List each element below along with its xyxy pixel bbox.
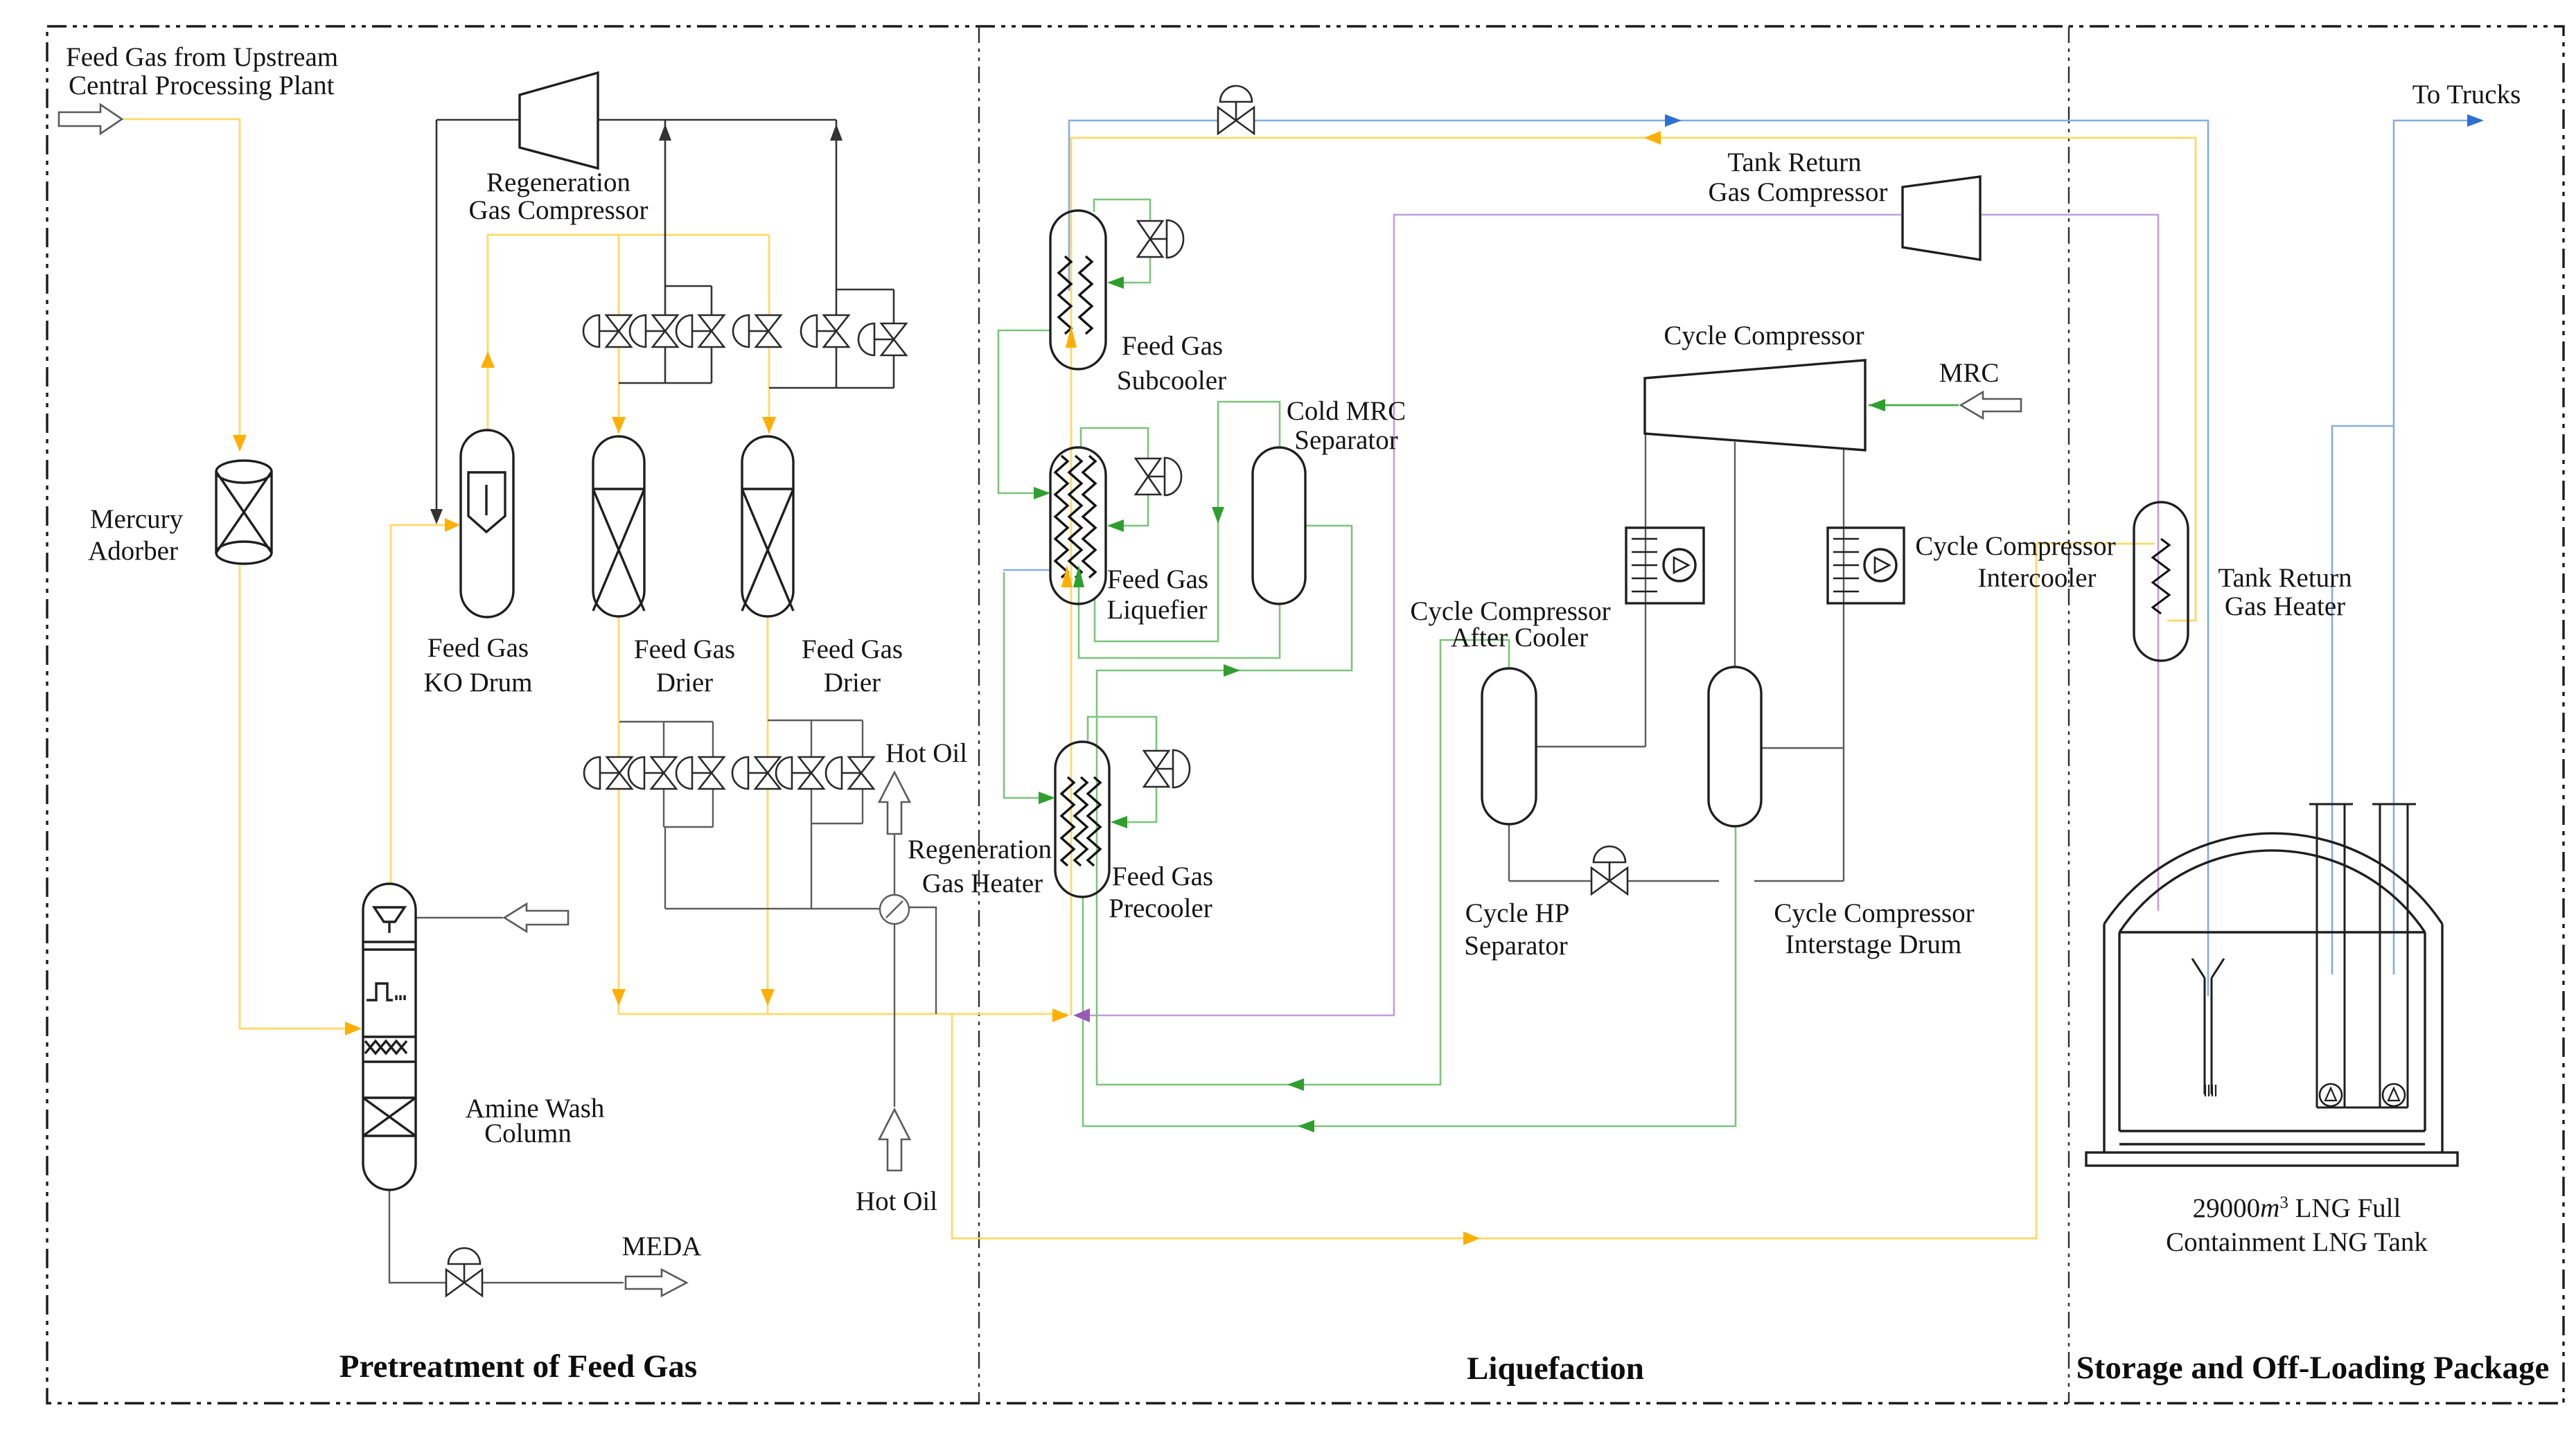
svg-text:Cycle Compressor: Cycle Compressor [1774,898,1974,928]
svg-text:Pretreatment of Feed Gas: Pretreatment of Feed Gas [339,1349,697,1385]
svg-text:Tank Return: Tank Return [2218,563,2352,593]
svg-text:Feed Gas: Feed Gas [1112,862,1213,891]
svg-text:MEDA: MEDA [622,1231,702,1261]
svg-text:Gas Compressor: Gas Compressor [1709,177,1888,207]
svg-text:Separator: Separator [1464,931,1567,961]
svg-text:Gas Compressor: Gas Compressor [469,195,649,225]
svg-text:Gas Heater: Gas Heater [2225,591,2345,621]
svg-text:Separator: Separator [1294,425,1397,455]
svg-text:After Cooler: After Cooler [1451,623,1588,652]
svg-text:Subcooler: Subcooler [1117,366,1226,395]
svg-text:Drier: Drier [656,668,713,697]
svg-text:Liquefaction: Liquefaction [1467,1351,1644,1387]
svg-text:Interstage Drum: Interstage Drum [1785,929,1962,959]
svg-text:Hot Oil: Hot Oil [885,738,967,768]
svg-text:Hot Oil: Hot Oil [856,1186,937,1216]
svg-text:To Trucks: To Trucks [2412,80,2521,109]
svg-text:Feed Gas: Feed Gas [1107,564,1208,594]
svg-text:29000m3 LNG Full: 29000m3 LNG Full [2193,1193,2401,1223]
svg-text:Mercury: Mercury [90,504,184,534]
svg-text:Cycle Compressor: Cycle Compressor [1915,531,2115,561]
svg-text:Cycle Compressor: Cycle Compressor [1410,596,1610,626]
svg-text:Liquefier: Liquefier [1106,595,1207,625]
svg-text:Feed Gas: Feed Gas [802,634,903,664]
svg-text:Drier: Drier [824,668,881,697]
svg-text:KO Drum: KO Drum [423,668,532,697]
svg-text:Regeneration: Regeneration [486,168,630,197]
svg-text:Cycle HP: Cycle HP [1465,898,1570,928]
svg-text:Feed Gas: Feed Gas [634,634,735,664]
svg-text:Feed Gas: Feed Gas [1122,331,1223,361]
svg-text:Storage and Off-Loading Packag: Storage and Off-Loading Package [2076,1350,2550,1386]
svg-text:Regeneration: Regeneration [908,835,1052,864]
svg-text:Central Processing Plant: Central Processing Plant [69,71,335,100]
svg-text:Feed Gas: Feed Gas [427,633,529,663]
svg-text:MRC: MRC [1939,358,2000,388]
svg-text:Adorber: Adorber [88,536,178,566]
svg-text:Precooler: Precooler [1109,893,1212,923]
svg-text:Column: Column [484,1119,572,1148]
svg-text:Containment LNG Tank: Containment LNG Tank [2166,1227,2428,1257]
svg-text:Cold MRC: Cold MRC [1287,396,1406,426]
svg-text:Intercooler: Intercooler [1977,563,2096,593]
svg-text:Feed Gas from Upstream: Feed Gas from Upstream [66,42,338,72]
svg-text:Gas Heater: Gas Heater [922,869,1043,898]
svg-text:Cycle Compressor: Cycle Compressor [1664,321,1864,350]
svg-text:Tank Return: Tank Return [1727,148,1861,177]
